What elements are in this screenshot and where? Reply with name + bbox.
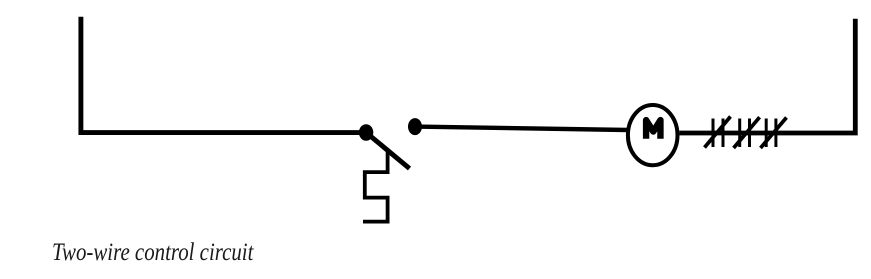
wire motor to L2 right rail bbox=[679, 19, 855, 133]
thermostat actuator zigzag bbox=[363, 150, 388, 222]
switch blade (open thermostat contact) bbox=[366, 133, 409, 169]
node left switch contact bbox=[359, 124, 373, 141]
wire switch to motor coil bbox=[415, 127, 628, 130]
overload heater OL2 bbox=[734, 117, 760, 148]
overload heater OL3 bbox=[761, 118, 787, 149]
overload heater OL1 bbox=[705, 117, 731, 148]
caption label bbox=[52, 239, 253, 267]
node right switch contact bbox=[408, 118, 422, 135]
motor starter coil M bbox=[628, 105, 678, 165]
wire L1 left rail bbox=[81, 17, 366, 133]
